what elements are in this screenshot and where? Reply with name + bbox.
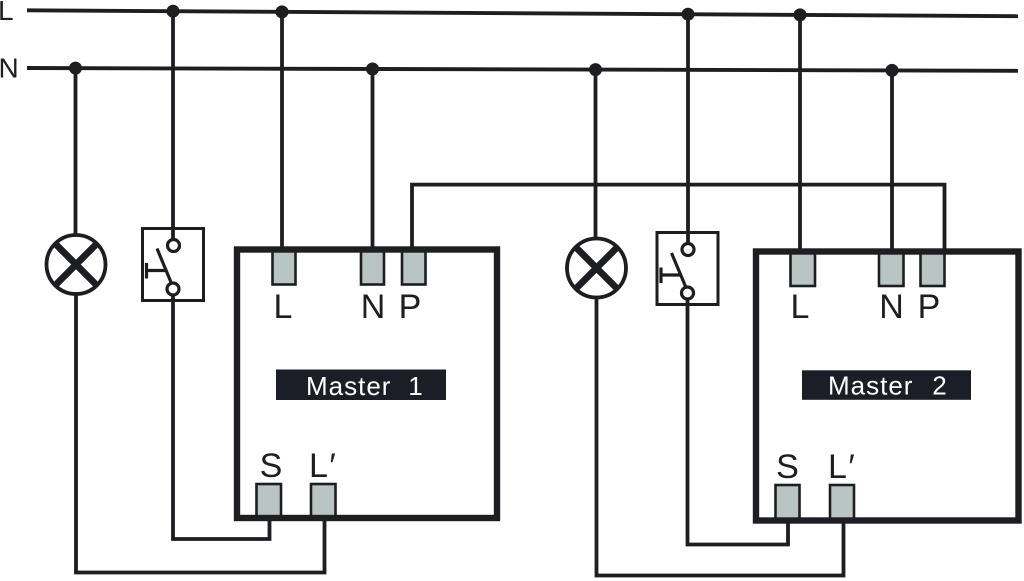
wire switch S2 to L bus bbox=[686, 14, 690, 245]
net L bus wire bbox=[27, 10, 1018, 16]
svg-text:L: L bbox=[274, 288, 293, 326]
wire lamp E2 to N bus bbox=[594, 70, 598, 238]
terminal P Master1 bbox=[402, 250, 426, 285]
svg-text:1: 1 bbox=[408, 371, 422, 401]
svg-text:P: P bbox=[399, 288, 422, 326]
junction L bus / switch S2 bbox=[682, 8, 695, 21]
wire Master2 N to N bus bbox=[890, 70, 894, 253]
terminal L Master2 bbox=[791, 252, 816, 286]
junction N bus / Master1 N bbox=[366, 63, 379, 76]
svg-text:L: L bbox=[0, 0, 14, 26]
Master 2 name plate bbox=[802, 370, 971, 400]
terminal L Master1 bbox=[273, 250, 296, 285]
svg-text:L: L bbox=[791, 288, 810, 326]
svg-text:N: N bbox=[879, 288, 904, 326]
svg-text:S: S bbox=[776, 448, 799, 486]
switch S1 (push-button) bbox=[143, 229, 204, 301]
junction L bus / switch S1 bbox=[167, 5, 180, 18]
Master 1 name plate bbox=[276, 370, 446, 401]
wire lamp E1 to N bus bbox=[74, 68, 78, 235]
junction N bus / lamp E1 bbox=[69, 62, 82, 75]
Master 1 box bbox=[237, 250, 497, 519]
terminal L' Master2 bbox=[830, 485, 854, 519]
wire P net Master1 P to Master2 P bbox=[412, 185, 945, 252]
svg-text:L′: L′ bbox=[828, 448, 855, 486]
lamp E2 bbox=[567, 239, 626, 298]
svg-text:S: S bbox=[260, 447, 283, 485]
svg-text:N: N bbox=[0, 53, 19, 84]
terminal S Master2 bbox=[776, 485, 800, 519]
wire lamp E1 bottom to Master1 L' bbox=[76, 294, 325, 573]
junction L bus / Master1 L bbox=[276, 5, 289, 18]
junction N bus / lamp E2 bbox=[589, 63, 602, 76]
wire switch S1 to L bus bbox=[171, 11, 175, 240]
terminal L' Master1 bbox=[311, 484, 336, 518]
lamp E1 bbox=[47, 235, 106, 294]
wire Master1 N to N bus bbox=[371, 69, 375, 251]
terminal S Master1 bbox=[257, 484, 282, 518]
wire lamp E2 bottom to Master2 L' bbox=[597, 298, 844, 576]
net N bus wire bbox=[27, 68, 1018, 71]
wire switch S2 bottom to Master2 S bbox=[688, 299, 789, 545]
svg-text:P: P bbox=[918, 288, 941, 326]
terminal N Master2 bbox=[879, 252, 904, 286]
junction L bus / Master2 L bbox=[794, 8, 807, 21]
svg-text:N: N bbox=[361, 288, 386, 326]
wire Master2 L to L bus bbox=[798, 15, 802, 252]
terminal P Master2 bbox=[921, 252, 945, 286]
switch S2 (push-button) bbox=[657, 233, 718, 305]
svg-text:2: 2 bbox=[932, 371, 946, 401]
Master 2 box bbox=[756, 252, 1019, 521]
terminal N Master1 bbox=[361, 250, 384, 285]
wire switch S1 bottom to Master1 S bbox=[173, 295, 270, 539]
junction N bus / Master2 N bbox=[886, 64, 899, 77]
svg-text:L′: L′ bbox=[309, 447, 336, 485]
svg-text:Master: Master bbox=[306, 371, 391, 401]
wire Master1 L to L bus bbox=[280, 12, 284, 251]
svg-text:Master: Master bbox=[828, 371, 913, 401]
